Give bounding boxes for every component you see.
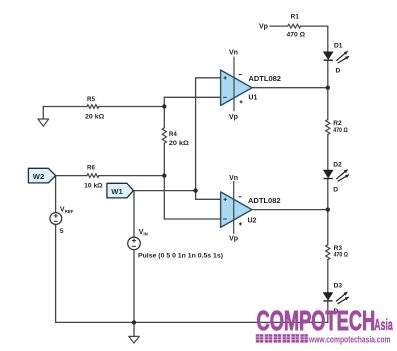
ground (left, R5) bbox=[38, 119, 49, 126]
svg-text:D2: D2 bbox=[333, 162, 342, 169]
svg-text:10 kΩ: 10 kΩ bbox=[84, 182, 103, 189]
wire R2 to D2 bbox=[327, 135, 329, 171]
op-amp U1 ADTL082 bbox=[221, 70, 252, 106]
U2 output junction bbox=[326, 207, 330, 211]
svg-text:5: 5 bbox=[60, 228, 64, 235]
svg-text:R2: R2 bbox=[333, 120, 342, 127]
svg-text:W1: W1 bbox=[111, 187, 123, 196]
svg-text:Vn: Vn bbox=[229, 50, 238, 57]
op-amp U2 ADTL082 bbox=[221, 192, 252, 228]
svg-text:W2: W2 bbox=[33, 172, 44, 181]
wire R1 to right rail corner down to D1 bbox=[301, 26, 328, 52]
svg-text:20 kΩ: 20 kΩ bbox=[169, 140, 189, 147]
svg-text:Vp: Vp bbox=[229, 114, 238, 121]
wire D3 cathode to bottom rail bbox=[327, 301, 329, 322]
svg-text:20 kΩ: 20 kΩ bbox=[85, 113, 104, 120]
wire R3 to D3 bbox=[327, 260, 329, 293]
svg-text:R4: R4 bbox=[169, 131, 177, 138]
wire R4 to node B bbox=[163, 143, 165, 175]
svg-text:D: D bbox=[333, 187, 338, 194]
resistor R2 bbox=[326, 120, 330, 135]
ground (bottom, main) bbox=[129, 336, 140, 343]
LED body bbox=[324, 170, 333, 177]
svg-text:R1: R1 bbox=[291, 13, 300, 20]
LED body bbox=[324, 52, 333, 59]
svg-text:U2: U2 bbox=[248, 218, 257, 225]
wire U2 output to rail bbox=[252, 209, 328, 211]
node A junction bbox=[162, 104, 166, 108]
wire VIN to bottom rail bbox=[133, 250, 135, 323]
resistor R3 bbox=[326, 245, 330, 260]
wire VREF to bottom rail bbox=[56, 224, 328, 322]
wire W1 to node C bbox=[133, 190, 196, 192]
wire W2 down to VREF bbox=[55, 176, 57, 213]
svg-text:D3: D3 bbox=[334, 283, 343, 290]
svg-text:D1: D1 bbox=[334, 42, 343, 49]
svg-text:Asia: Asia bbox=[374, 317, 393, 334]
wire Vp to R1 bbox=[270, 25, 288, 27]
wire W2 to R6 bbox=[56, 175, 87, 177]
net label W1 bbox=[107, 183, 133, 198]
logo tagline CJK blocks bbox=[256, 334, 264, 342]
wire D1 cathode to R2 bbox=[327, 60, 329, 119]
svg-text:Vp: Vp bbox=[259, 24, 268, 31]
wire U1 output to rail bbox=[252, 87, 328, 89]
svg-text:470 Ω: 470 Ω bbox=[287, 32, 306, 39]
wire U1 noninverting input down to node C bbox=[196, 78, 221, 191]
svg-text:Pulse (0 5 0 1n 1n 0.5s 1s): Pulse (0 5 0 1n 1n 0.5s 1s) bbox=[138, 253, 223, 260]
wire node B down to U2 inverting input bbox=[164, 176, 220, 219]
node B junction bbox=[162, 173, 166, 177]
svg-text:Vn: Vn bbox=[229, 175, 238, 182]
svg-text:ADTL082: ADTL082 bbox=[248, 76, 281, 83]
wire D2 cathode to R3 bbox=[327, 179, 329, 245]
wire W1 down to VIN bbox=[133, 191, 135, 238]
svg-text:470 Ω: 470 Ω bbox=[334, 251, 349, 258]
wire R6 to node B bbox=[99, 175, 164, 177]
svg-text:ADTL082: ADTL082 bbox=[248, 198, 281, 205]
svg-text:470 Ω: 470 Ω bbox=[333, 127, 348, 134]
LED body bbox=[323, 293, 332, 300]
svg-text:R5: R5 bbox=[87, 96, 95, 103]
svg-text:COMPOTECH: COMPOTECH bbox=[257, 305, 376, 336]
node C junction bbox=[193, 188, 197, 192]
wire ground to R5 bbox=[43, 106, 87, 108]
svg-text:U1: U1 bbox=[248, 94, 257, 101]
svg-text:D: D bbox=[336, 67, 341, 74]
resistor R1 bbox=[288, 24, 301, 28]
wire R5 to node A bbox=[99, 106, 164, 108]
voltage source VREF bbox=[50, 213, 62, 225]
resistor R6 bbox=[87, 174, 99, 178]
wire node A down to R4 bbox=[163, 107, 165, 128]
voltage source VIN bbox=[128, 237, 141, 250]
svg-text:R6: R6 bbox=[87, 164, 95, 171]
resistor R5 bbox=[87, 105, 99, 109]
wire ground stub bottom bbox=[133, 322, 135, 336]
wire node A up to U1 inverting input bbox=[164, 97, 220, 106]
net label W2 bbox=[28, 168, 55, 183]
svg-text:www.compotechasia.com: www.compotechasia.com bbox=[308, 335, 390, 345]
wire ground stub left bbox=[42, 107, 44, 120]
ground rail junction bbox=[132, 320, 136, 324]
U1 output junction bbox=[326, 86, 330, 90]
resistor R4 bbox=[162, 128, 166, 144]
wire node C to U2 noninverting input bbox=[196, 191, 221, 200]
svg-text:Vp: Vp bbox=[229, 236, 238, 243]
